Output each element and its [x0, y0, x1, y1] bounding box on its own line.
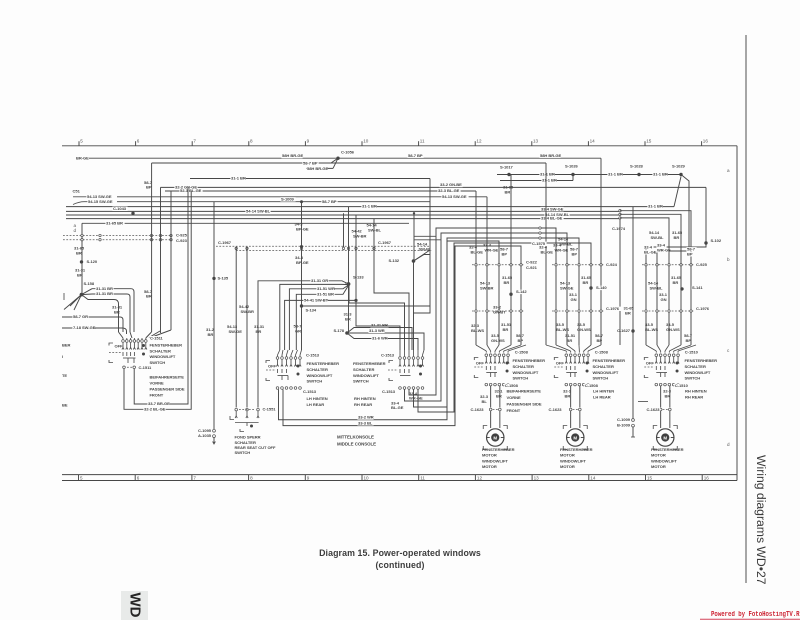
splice S-102 [704, 241, 707, 244]
svg-text:8: 8 [250, 475, 253, 480]
svg-text:BR: BR [583, 280, 589, 285]
connector row C-922 C-921 front RH [472, 264, 524, 266]
wire to RH rear feed 2 [620, 214, 681, 345]
svg-text:MITTELKONSOLE: MITTELKONSOLE [337, 435, 374, 440]
svg-text:FENSTERHEBER: FENSTERHEBER [593, 358, 626, 363]
svg-text:33-7 BR-GE: 33-7 BR-GE [148, 401, 170, 406]
wire riser x356 [355, 215, 357, 322]
svg-text:13: 13 [533, 139, 539, 144]
svg-text:33-4 SW-GE: 33-4 SW-GE [541, 206, 564, 211]
switch funnel console RH [399, 350, 401, 355]
svg-text:SCHALTER: SCHALTER [150, 348, 171, 353]
wire 54-15 SW-GE [117, 201, 430, 203]
svg-text:C-1510: C-1510 [685, 350, 699, 355]
svg-text:C-1508: C-1508 [505, 383, 519, 388]
svg-text:VORNE: VORNE [507, 395, 521, 400]
wire 58H BR-GE top feed [89, 157, 601, 159]
splice S-178 [345, 331, 349, 335]
svg-text:GN: GN [661, 297, 667, 302]
svg-text:C-1009: C-1009 [617, 417, 631, 422]
console RH drop 4 [418, 243, 591, 412]
splice S-133 merge [347, 282, 351, 286]
wire riser E2 [486, 197, 488, 345]
svg-text:31-1 BR: 31-1 BR [231, 176, 246, 181]
svg-text:7-18 SW-GE: 7-18 SW-GE [73, 325, 96, 330]
svg-text:15: 15 [646, 139, 652, 144]
svg-text:BER: BER [62, 343, 71, 348]
svg-text:FENSTERHEBER: FENSTERHEBER [482, 447, 515, 452]
connector row C-924 rear LH [552, 264, 604, 266]
wire 58-7 BP riser F [545, 163, 547, 345]
svg-text:MOTOR: MOTOR [560, 464, 575, 469]
svg-text:C-1967: C-1967 [378, 240, 392, 245]
svg-text:BP: BP [502, 252, 508, 257]
svg-text:FENSTERHEBER: FENSTERHEBER [353, 361, 386, 366]
svg-text:OFF: OFF [556, 361, 565, 366]
svg-text:S-1028: S-1028 [630, 163, 644, 168]
connector C-1095 [213, 429, 216, 432]
wire riser S-132 [413, 213, 415, 261]
wire 33-7 BR-GE [134, 187, 188, 404]
svg-text:31-6 WR: 31-6 WR [372, 336, 388, 341]
switch bracket console RH [389, 361, 393, 364]
svg-text:32-3 BL-GE: 32-3 BL-GE [438, 188, 460, 193]
wire 54-14 SW-BL 1 [66, 210, 620, 212]
wire 33-3 BL [283, 246, 455, 426]
wire 32-3 riser E1 [475, 191, 477, 345]
svg-text:FENSTERHEBER: FENSTERHEBER [651, 447, 684, 452]
svg-text:33-4 BL-GE: 33-4 BL-GE [541, 216, 563, 221]
svg-text:BP: BP [686, 338, 692, 343]
svg-text:WR-GE: WR-GE [409, 396, 423, 401]
svg-text:BR: BR [505, 190, 511, 195]
svg-text:FENSTERHEBER: FENSTERHEBER [307, 361, 340, 366]
splice S-135 [212, 277, 215, 280]
wire 31-1 BR stub [500, 180, 573, 182]
svg-text:BEIFAHRERSEITE: BEIFAHRERSEITE [507, 389, 542, 394]
svg-text:BL-WS: BL-WS [645, 327, 658, 332]
wire S-132 cross link 1 [414, 235, 436, 237]
svg-text:BP: BP [572, 252, 578, 257]
connector row C-1511 upper [122, 340, 125, 343]
svg-text:31-51 BR: 31-51 BR [317, 291, 334, 296]
svg-text:SCHALTER: SCHALTER [593, 364, 614, 369]
svg-text:58H BR-GE: 58H BR-GE [307, 166, 328, 171]
connector row C-1976 rear LH [552, 310, 604, 312]
svg-text:12: 12 [476, 139, 482, 144]
svg-text:C-924: C-924 [606, 262, 618, 267]
connector row C-1510 upper rear RH [655, 354, 658, 357]
svg-text:S-142: S-142 [516, 289, 527, 294]
window lift switch rear LH contacts [565, 357, 567, 362]
svg-text:C-1976: C-1976 [606, 306, 620, 311]
svg-text:OFF: OFF [115, 344, 124, 349]
svg-text:31-31 GR: 31-31 GR [311, 278, 328, 283]
connector C-1575 stack [539, 227, 541, 229]
wire to RH rear feed 3 [620, 218, 669, 345]
splice S-1026 [571, 173, 574, 176]
switch bracket OFF console LH [266, 361, 270, 364]
svg-text:C-1095: C-1095 [198, 428, 212, 433]
svg-text:31-1 BR: 31-1 BR [362, 204, 377, 209]
wire riser x214 to cutoff switch [213, 202, 215, 430]
svg-text:WINDOWLIFT: WINDOWLIFT [560, 458, 586, 463]
svg-text:BR: BR [625, 311, 631, 316]
svg-text:I: I [62, 354, 63, 359]
svg-text:31-1 BR: 31-1 BR [608, 172, 623, 177]
wire riser C-1627 [632, 207, 634, 331]
svg-text:MOTOR: MOTOR [651, 453, 666, 458]
svg-text:BL: BL [482, 399, 488, 404]
svg-text:C-1508: C-1508 [515, 350, 529, 355]
connector A-1035 [213, 435, 216, 438]
svg-text:LH HINTEN: LH HINTEN [593, 389, 614, 394]
wire riser x160 [160, 187, 162, 333]
svg-text:S-1026: S-1026 [565, 163, 579, 168]
connector row C-925 [63, 235, 172, 237]
wire S-134 branch [302, 305, 431, 307]
svg-text:SW-BR: SW-BR [241, 309, 255, 314]
svg-text:SCHALTER: SCHALTER [353, 367, 374, 372]
splice to S-1029 drop [674, 177, 681, 207]
connector row C-1508 lower rear LH [565, 383, 568, 386]
svg-text:GN-BT: GN-BT [493, 309, 506, 314]
console D feeds [345, 283, 405, 350]
svg-text:BP-GE: BP-GE [296, 260, 309, 265]
svg-text:13: 13 [534, 475, 540, 480]
svg-text:BR: BR [76, 251, 82, 256]
svg-text:SW-GE: SW-GE [560, 285, 574, 290]
svg-text:S-135: S-135 [218, 276, 229, 281]
svg-text:S-158: S-158 [84, 281, 95, 286]
svg-text:BR-GE: BR-GE [76, 156, 89, 161]
svg-text:WR-GE: WR-GE [485, 248, 499, 253]
console C pin wire 1 [258, 281, 349, 408]
svg-text:PASSENGER SIDE: PASSENGER SIDE [507, 401, 542, 406]
wire 31-65 BR left [82, 222, 409, 224]
wire riser 54-13 SW-GE [235, 247, 237, 408]
svg-text:58-7 BP: 58-7 BP [408, 153, 423, 158]
connector row C-1513 upper LH [276, 357, 279, 360]
svg-text:5: 5 [80, 475, 83, 480]
svg-text:31-3 WR: 31-3 WR [369, 328, 385, 333]
svg-text:S-141: S-141 [692, 285, 703, 290]
wire 58-7 BP branch [152, 162, 546, 164]
connector row C-1576 front RH [472, 310, 524, 312]
window lift motor rear LH [570, 411, 572, 428]
svg-text:15: 15 [647, 475, 653, 480]
svg-text:(continued): (continued) [376, 560, 425, 570]
wire 54-13 SW-GE [117, 196, 487, 198]
console RH drop 3 [414, 238, 580, 407]
svg-text:PASSENGER SIDE: PASSENGER SIDE [150, 386, 185, 391]
svg-text:M: M [663, 435, 667, 440]
svg-text:C-923: C-923 [176, 238, 188, 243]
wire 7-18 SW-GE [62, 327, 122, 329]
wire riser 54-42 SW-BR [246, 247, 248, 408]
rear seat cutoff switch contacts [235, 411, 237, 416]
console RH drop 2 [405, 233, 568, 401]
svg-text:54-13 SW-GE: 54-13 SW-GE [442, 194, 467, 199]
svg-text:14: 14 [590, 475, 596, 480]
left edge tick [63, 293, 65, 300]
svg-text:BL-GE: BL-GE [541, 250, 554, 255]
window lift switch front RH contacts [485, 357, 487, 362]
switch bracket OFF rear RH [644, 358, 648, 361]
svg-text:SW-BL: SW-BL [368, 227, 382, 232]
connector row C-1510 lower rear RH [655, 383, 658, 386]
wire 32-2 GN-GE [161, 186, 707, 188]
svg-text:WINDOWLIFT: WINDOWLIFT [685, 370, 711, 375]
wire drops rear LH [570, 386, 572, 408]
svg-text:S-178: S-178 [333, 328, 344, 333]
svg-text:GN: GN [571, 297, 577, 302]
window lift motor front RH [490, 411, 492, 428]
svg-text:11: 11 [420, 139, 425, 144]
svg-text:BR: BR [665, 393, 671, 398]
svg-text:C-1510: C-1510 [675, 383, 689, 388]
wire 31-31 BR branch 2 [92, 293, 127, 295]
svg-text:WINDOWLIFT: WINDOWLIFT [513, 370, 539, 375]
svg-text:BR: BR [503, 327, 509, 332]
svg-text:11: 11 [420, 475, 425, 480]
connector C-1009 [632, 419, 635, 422]
svg-text:7: 7 [193, 139, 196, 144]
svg-text:GN-WS: GN-WS [666, 327, 680, 332]
wire 32-2 BL-GE [124, 191, 191, 409]
svg-text:54-41 SW-BT: 54-41 SW-BT [304, 298, 329, 303]
wire to RH rear feed 1 [620, 211, 691, 345]
svg-text:33-2 WR: 33-2 WR [358, 415, 374, 420]
svg-text:FENSTERHEBER: FENSTERHEBER [560, 447, 593, 452]
svg-text:14: 14 [590, 139, 596, 144]
svg-text:8: 8 [250, 139, 253, 144]
splice S-1029 [679, 173, 682, 176]
svg-text:BR: BR [565, 393, 571, 398]
svg-text:SW-BR: SW-BR [353, 233, 367, 238]
svg-text:C-921: C-921 [526, 265, 538, 270]
top ruler [62, 145, 737, 147]
wire 33-4 BL-GE [66, 218, 620, 220]
svg-text:S-120: S-120 [87, 259, 98, 264]
svg-text:LH HINTEN: LH HINTEN [307, 396, 328, 401]
svg-text:58-7 BP: 58-7 BP [322, 199, 337, 204]
svg-text:Diagram 15. Power-operated win: Diagram 15. Power-operated windows [319, 548, 481, 558]
svg-text:C51: C51 [73, 189, 81, 194]
svg-text:33-3 BL: 33-3 BL [358, 421, 373, 426]
label C-1623 front RH [469, 408, 484, 412]
wire 58H BR-GE stub [306, 167, 333, 169]
console C pin wire 3 [289, 285, 348, 350]
connector C-1974 [619, 210, 621, 212]
svg-text:16: 16 [703, 139, 709, 144]
sidebar rule [745, 35, 747, 583]
svg-text:C-1513: C-1513 [306, 352, 320, 357]
svg-text:SW-BL: SW-BL [651, 235, 665, 240]
svg-text:C-1974: C-1974 [612, 226, 626, 231]
svg-text:SWITCH: SWITCH [685, 376, 701, 381]
svg-text:GN-WS: GN-WS [577, 327, 591, 332]
connector row C-1508 upper front RH [485, 354, 488, 357]
switch funnel console LH [278, 350, 280, 355]
switch bracket OFF front passenger [109, 343, 113, 346]
connector B-1009 [632, 424, 635, 427]
svg-text:SCHALTER: SCHALTER [685, 364, 706, 369]
svg-text:Wiring diagrams WD•27: Wiring diagrams WD•27 [754, 455, 768, 585]
svg-text:C-1575: C-1575 [532, 241, 546, 246]
svg-text:S-1029: S-1029 [672, 163, 686, 168]
svg-text:9: 9 [307, 139, 310, 144]
splice S-140 [589, 286, 592, 289]
wire 31-3 BR rear RH [619, 220, 621, 346]
svg-text:BP: BP [687, 252, 693, 257]
console C pin wire 4 [296, 285, 348, 350]
connector row C-1508 lower front RH [485, 383, 488, 386]
svg-text:BL-GE: BL-GE [644, 250, 657, 255]
svg-text:BP-GE: BP-GE [296, 226, 309, 231]
svg-text:d: d [74, 228, 77, 233]
svg-text:OFF: OFF [476, 361, 485, 366]
svg-text:31-65 BR: 31-65 BR [106, 220, 123, 225]
svg-text:10: 10 [363, 139, 369, 144]
svg-text:31-31 BR: 31-31 BR [96, 286, 113, 291]
window lift switch console LH contacts [277, 360, 279, 365]
svg-text:C-1967: C-1967 [218, 240, 232, 245]
wire 33-2 WR [279, 241, 448, 420]
splice C-1627 [631, 329, 634, 332]
svg-text:BR: BR [504, 280, 510, 285]
connector row C-1513 lower RH [399, 387, 402, 390]
svg-text:54-15 SW-GE: 54-15 SW-GE [88, 199, 113, 204]
wire S-1029 drop to RH rear [657, 175, 689, 346]
svg-text:M: M [493, 435, 497, 440]
svg-text:SW-BL: SW-BL [560, 242, 574, 247]
svg-text:31-31 BR: 31-31 BR [371, 322, 388, 327]
svg-text:12: 12 [477, 475, 483, 480]
wire riser x171 [170, 191, 172, 330]
svg-text:b: b [727, 257, 730, 262]
svg-text:BR: BR [496, 393, 502, 398]
svg-text:RH HINTEN: RH HINTEN [354, 396, 376, 401]
svg-text:WINDOWLIFT: WINDOWLIFT [307, 373, 333, 378]
svg-text:TE: TE [62, 373, 67, 378]
svg-text:MOTOR: MOTOR [560, 453, 575, 458]
wire 31-31 BR upper branch [347, 328, 412, 351]
svg-text:C-1623: C-1623 [549, 407, 563, 412]
svg-text:SW-BR: SW-BR [480, 285, 494, 290]
svg-text:BR: BR [77, 272, 83, 277]
svg-text:S-102: S-102 [711, 238, 722, 243]
splice S-132 [412, 259, 416, 263]
window lift switch front passenger contacts [122, 343, 124, 348]
svg-text:FENSTERHEBER: FENSTERHEBER [685, 358, 718, 363]
wire riser x301 console [301, 202, 303, 350]
svg-text:31-1 BR: 31-1 BR [540, 172, 555, 177]
window lift motor rear RH [660, 411, 662, 428]
svg-text:C-1511: C-1511 [150, 335, 164, 340]
svg-text:16: 16 [704, 475, 710, 480]
svg-text:S-133: S-133 [353, 274, 364, 279]
splice C-1056 [336, 157, 339, 160]
svg-text:C-1623: C-1623 [647, 407, 661, 412]
svg-text:SWITCH: SWITCH [593, 376, 609, 381]
svg-text:M: M [573, 435, 577, 440]
svg-text:RH REAR: RH REAR [685, 395, 703, 400]
connector row C-923 [63, 239, 172, 241]
right border [736, 146, 738, 481]
svg-text:VORNE: VORNE [150, 380, 164, 385]
wire S-132 cross link 2 [414, 239, 441, 241]
svg-text:9: 9 [307, 475, 310, 480]
svg-text:FRONT: FRONT [507, 408, 521, 413]
svg-text:SWITCH: SWITCH [513, 376, 529, 381]
svg-text:MOTOR: MOTOR [482, 453, 497, 458]
svg-text:32-2 BL-GE: 32-2 BL-GE [144, 406, 166, 411]
svg-text:OFF: OFF [646, 361, 655, 366]
wire riser E3 31-65 BR [510, 175, 512, 346]
switch funnel rear RH [646, 345, 656, 351]
svg-text:BE: BE [62, 403, 68, 408]
svg-text:58H BR-GE: 58H BR-GE [540, 153, 561, 158]
svg-text:SCHALTER: SCHALTER [513, 364, 534, 369]
svg-text:C-1043: C-1043 [113, 206, 127, 211]
wire 31-1 BR lower [190, 178, 430, 180]
svg-text:S-1009: S-1009 [281, 197, 295, 202]
connector C-1623 front RH [489, 408, 492, 411]
connector row C-1976 rear RH [642, 310, 694, 312]
svg-text:SWITCH: SWITCH [150, 360, 166, 365]
wire S-102 drop [646, 187, 706, 345]
switch funnel front passenger [119, 332, 124, 338]
svg-text:C-1976: C-1976 [696, 306, 710, 311]
svg-text:BL-GE: BL-GE [471, 250, 484, 255]
console C pin wire 5 [285, 300, 356, 350]
svg-text:C-1508: C-1508 [595, 350, 609, 355]
svg-text:SCHALTER: SCHALTER [307, 367, 328, 372]
svg-text:Powered by FotoHostingTV.RU: Powered by FotoHostingTV.RU [711, 611, 800, 619]
svg-text:A-1035: A-1035 [198, 433, 212, 438]
svg-text:SW-GE: SW-GE [229, 329, 243, 334]
bottom ruler [62, 474, 737, 476]
connector row C-1513 lower LH [276, 387, 279, 390]
svg-text:WR-GE: WR-GE [555, 248, 569, 253]
svg-text:C-1513: C-1513 [303, 389, 317, 394]
svg-text:WINDOWLIFT: WINDOWLIFT [150, 354, 176, 359]
switch bracket OFF front RH [474, 358, 478, 361]
svg-text:SW-BL: SW-BL [419, 247, 433, 252]
S-132 branches [414, 255, 431, 262]
svg-text:B-1009: B-1009 [617, 423, 631, 428]
svg-text:WR-GE: WR-GE [657, 248, 671, 253]
splice S-120 [80, 260, 83, 263]
connector C-1623 rear RH [659, 408, 662, 411]
splice S-142 [509, 293, 512, 296]
svg-text:MOTOR: MOTOR [651, 464, 666, 469]
svg-text:54-14 SW-BL: 54-14 SW-BL [246, 209, 271, 214]
svg-text:LH REAR: LH REAR [593, 395, 611, 400]
wire 31-31 BR branch 1 [92, 288, 131, 290]
svg-text:S-132: S-132 [388, 258, 399, 263]
splice S-134 [300, 304, 303, 307]
svg-text:BEIFAHRERSEITE: BEIFAHRERSEITE [150, 374, 185, 379]
svg-text:BP: BP [597, 338, 603, 343]
wire C-1009 drop [632, 331, 634, 419]
connector row C-925 rear RH [642, 264, 694, 266]
svg-text:WINDOWLIFT: WINDOWLIFT [482, 458, 508, 463]
svg-text:FRONT: FRONT [150, 392, 164, 397]
splice C-1043 [131, 212, 134, 215]
svg-text:WD: WD [127, 593, 144, 618]
